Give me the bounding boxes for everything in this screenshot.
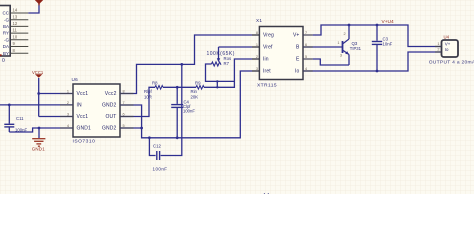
svg-text:4: 4 bbox=[305, 67, 307, 71]
node VCC1 pin1 junction bbox=[37, 92, 40, 95]
power bar VCC (top, cut off) bbox=[35, 0, 43, 4]
potentiometer R7 bbox=[206, 47, 235, 87]
svg-text:1: 1 bbox=[337, 41, 339, 45]
svg-text:X1: X1 bbox=[256, 18, 262, 23]
connector pin 13 bbox=[10, 14, 28, 19]
svg-text:OUTPUT 4 a 20mA: OUTPUT 4 a 20mA bbox=[429, 59, 474, 65]
svg-text:7: 7 bbox=[305, 31, 307, 35]
wire pin14 to VCC bar bbox=[28, 4, 39, 14]
svg-text:-G: -G bbox=[4, 37, 9, 42]
connector pin 9 bbox=[10, 41, 28, 46]
node C12 left junction bbox=[148, 136, 151, 139]
wire pot wiper to X1 Vref bbox=[219, 46, 260, 48]
svg-text:DA: DA bbox=[3, 44, 9, 49]
svg-text:C11: C11 bbox=[16, 116, 24, 121]
svg-text:BY: BY bbox=[3, 51, 9, 56]
node C3 bottom junction bbox=[376, 70, 379, 73]
U6 pin stubs bbox=[60, 94, 134, 129]
svg-text:V+U4: V+U4 bbox=[382, 19, 394, 25]
svg-text:RY: RY bbox=[3, 31, 9, 36]
connector P1 (partially off-screen left) bbox=[0, 6, 10, 63]
resistor R8 bbox=[144, 80, 163, 99]
svg-text:Io: Io bbox=[295, 69, 300, 75]
svg-text:Vreg: Vreg bbox=[263, 33, 274, 39]
svg-text:Vcc2: Vcc2 bbox=[105, 91, 117, 97]
connector pin 10 bbox=[10, 34, 28, 39]
svg-text:Rin: Rin bbox=[191, 89, 198, 94]
svg-text:10: 10 bbox=[13, 34, 18, 39]
svg-text:ISO7310: ISO7310 bbox=[73, 138, 96, 144]
U6 right pin stubs overpaint bbox=[120, 94, 134, 129]
svg-text:7: 7 bbox=[123, 101, 125, 105]
svg-text:Iret: Iret bbox=[263, 69, 271, 75]
svg-text:1: 1 bbox=[437, 42, 439, 46]
U4 pin stubs overpaint bbox=[435, 47, 442, 53]
svg-text:10nF: 10nF bbox=[383, 42, 393, 47]
capacitor C12 bbox=[149, 64, 181, 171]
wire GND2 net U6 pin7 to X1 Iret bbox=[120, 71, 259, 138]
svg-text:IN: IN bbox=[77, 103, 83, 109]
power VCC1 bbox=[32, 70, 44, 78]
svg-text:V+: V+ bbox=[293, 33, 300, 39]
svg-text:C12: C12 bbox=[153, 144, 161, 149]
svg-text:44: 44 bbox=[263, 192, 271, 194]
svg-text:1: 1 bbox=[67, 89, 69, 93]
svg-text:2: 2 bbox=[256, 55, 258, 59]
svg-text:1: 1 bbox=[256, 43, 258, 47]
svg-text:3: 3 bbox=[67, 112, 69, 116]
svg-text:Rlpf: Rlpf bbox=[144, 89, 152, 94]
svg-text:14: 14 bbox=[13, 8, 18, 13]
wire R8 to R9 bbox=[163, 86, 196, 88]
svg-text:B: B bbox=[296, 45, 300, 51]
node C11 tap bbox=[8, 104, 11, 107]
svg-text:R8: R8 bbox=[152, 80, 158, 85]
svg-text:13: 13 bbox=[13, 14, 18, 19]
svg-text:2: 2 bbox=[437, 48, 439, 52]
wire Q3 emitter to X1 E bbox=[313, 59, 349, 65]
X1 pin 2 bbox=[252, 55, 259, 59]
svg-text:5: 5 bbox=[123, 124, 125, 128]
svg-text:Vcc1: Vcc1 bbox=[77, 114, 89, 120]
svg-text:6: 6 bbox=[305, 43, 307, 47]
wire U6 pin6 OUT to R8 bbox=[120, 87, 155, 116]
wire C11 to U6 pin4 bbox=[9, 128, 73, 132]
node C3 top junction bbox=[376, 24, 379, 27]
X1 pin 3 bbox=[252, 67, 259, 71]
X1 right pin stubs overpaint bbox=[303, 35, 313, 71]
svg-text:12: 12 bbox=[13, 21, 18, 26]
capacitor C11 bbox=[4, 105, 27, 133]
U4 pin 1 bbox=[435, 42, 442, 47]
svg-text:Vref: Vref bbox=[263, 45, 273, 51]
connector pin 8 bbox=[10, 48, 28, 53]
svg-text:XTR115: XTR115 bbox=[257, 83, 277, 89]
node C4 bottom junction bbox=[176, 136, 179, 139]
svg-text:100nF: 100nF bbox=[153, 166, 168, 171]
svg-text:20K: 20K bbox=[191, 94, 199, 99]
node pot/R9 junction bbox=[216, 86, 218, 88]
node collector junction bbox=[348, 24, 351, 27]
wire R9 to X1 Iin bbox=[204, 59, 259, 87]
svg-text:GND1: GND1 bbox=[32, 147, 46, 152]
connector pin 14 bbox=[10, 8, 28, 13]
wire VCC1 to U6 pin1 and pin3 bbox=[38, 78, 40, 117]
X1 pin 4 bbox=[303, 67, 313, 71]
svg-text:V+: V+ bbox=[445, 41, 451, 46]
X1 pin 7 bbox=[303, 31, 313, 35]
svg-text:Iin: Iin bbox=[263, 57, 269, 63]
svg-text:4: 4 bbox=[67, 124, 69, 128]
node pin5 GND2 junction bbox=[140, 127, 143, 130]
wire X1 B to Q3 base bbox=[303, 46, 343, 48]
svg-text:11: 11 bbox=[13, 28, 18, 33]
svg-text:TIP31: TIP31 bbox=[350, 46, 362, 51]
red tick left edge bbox=[0, 54, 2, 56]
svg-text:Io: Io bbox=[445, 47, 449, 52]
svg-text:GND1: GND1 bbox=[77, 126, 92, 132]
capacitor C3 bbox=[372, 25, 393, 71]
svg-text:GND2: GND2 bbox=[102, 126, 117, 132]
resistor R9 bbox=[191, 80, 205, 99]
connector pin 11 bbox=[10, 28, 28, 33]
connector pin 12 bbox=[10, 21, 28, 26]
IC U6 ISO7310 bbox=[72, 77, 121, 145]
svg-text:U6: U6 bbox=[72, 77, 79, 82]
connector U4 output bbox=[442, 34, 459, 57]
X1 pin 5 bbox=[303, 55, 313, 59]
svg-text:R7: R7 bbox=[224, 61, 230, 66]
node GND1 junction bbox=[38, 127, 41, 130]
svg-text:Vcc1: Vcc1 bbox=[77, 91, 89, 97]
svg-text:U4: U4 bbox=[444, 34, 450, 39]
node pot loop junction bbox=[216, 80, 218, 82]
svg-text:8: 8 bbox=[123, 89, 125, 93]
X1 pin 1 bbox=[252, 43, 259, 47]
U4 pin 2 bbox=[435, 48, 442, 52]
wire IN net bbox=[0, 104, 73, 106]
svg-text:2: 2 bbox=[67, 101, 69, 105]
wire X1 Io to U4 bbox=[303, 52, 442, 71]
node C4 top junction bbox=[176, 86, 179, 89]
svg-text:BA: BA bbox=[3, 24, 9, 29]
X1 pin 8 bbox=[252, 31, 259, 35]
IC X1 XTR115 bbox=[256, 18, 303, 89]
svg-text:6: 6 bbox=[123, 112, 125, 116]
transistor Q3 TIP31 bbox=[337, 25, 361, 65]
svg-text:R9: R9 bbox=[195, 80, 201, 85]
node Vreg/C12 junction bbox=[180, 63, 183, 66]
capacitor C4 bbox=[171, 87, 195, 138]
wire Vcc2/Vreg net U6 pin8 to X1 Vreg bbox=[120, 35, 259, 94]
svg-text:GND2: GND2 bbox=[102, 103, 117, 109]
svg-text:8: 8 bbox=[256, 31, 258, 35]
wire U6 pin5 to GND2 bbox=[120, 127, 142, 129]
svg-text:3: 3 bbox=[256, 67, 258, 71]
svg-text:10R: 10R bbox=[144, 94, 152, 99]
svg-text:2: 2 bbox=[344, 32, 346, 36]
svg-text:CC: CC bbox=[3, 11, 10, 16]
svg-text:100nF: 100nF bbox=[183, 109, 195, 114]
svg-text:5: 5 bbox=[305, 55, 307, 59]
svg-text:OUT: OUT bbox=[105, 114, 116, 120]
svg-text:3: 3 bbox=[340, 54, 342, 58]
svg-text:E: E bbox=[296, 57, 300, 63]
svg-text:-G: -G bbox=[4, 17, 9, 22]
X1 pin 6 bbox=[303, 43, 313, 47]
ground GND1 bbox=[32, 128, 46, 152]
wire X1 V+ to rail bbox=[313, 25, 442, 47]
